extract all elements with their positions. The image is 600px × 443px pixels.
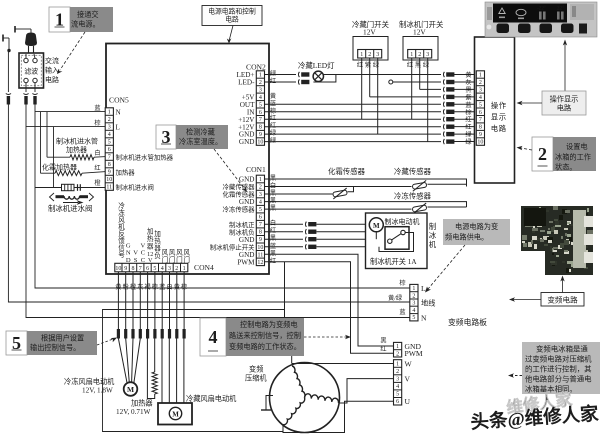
svg-text:变频电冰箱是通: 变频电冰箱是通 xyxy=(536,345,588,354)
svg-text:3: 3 xyxy=(168,266,171,272)
annotation box 操作显示电路 xyxy=(542,91,586,115)
svg-text:路送来控制信号，控制: 路送来控制信号，控制 xyxy=(229,331,301,340)
svg-text:M: M xyxy=(373,222,380,230)
svg-text:LED-: LED- xyxy=(238,79,255,87)
svg-text:9: 9 xyxy=(124,266,127,272)
svg-text:4: 4 xyxy=(259,200,262,206)
svg-text:机: 机 xyxy=(118,222,125,231)
svg-text:4: 4 xyxy=(108,132,111,138)
inverter GND/PWM connector xyxy=(394,342,402,357)
svg-text:12: 12 xyxy=(257,260,263,266)
svg-text:6: 6 xyxy=(146,266,149,272)
step label 2 设置电冰箱的工作状态 xyxy=(532,137,553,171)
svg-text:变频: 变频 xyxy=(249,365,263,374)
svg-text:6: 6 xyxy=(396,399,399,405)
svg-text:10: 10 xyxy=(257,140,263,146)
svg-text:9: 9 xyxy=(259,237,262,243)
svg-text:冷冻传感器: 冷冻传感器 xyxy=(394,192,432,201)
svg-text:棕: 棕 xyxy=(270,107,276,115)
svg-text:2: 2 xyxy=(396,351,399,357)
icemaker internal wires xyxy=(375,232,377,239)
CON4 output wires down xyxy=(117,272,119,329)
svg-text:4: 4 xyxy=(209,327,218,347)
svg-text:化霜传感器: 化霜传感器 xyxy=(328,167,366,176)
step label 5 根据用户设置输出控制信号 xyxy=(6,331,27,355)
switch drop wires xyxy=(361,58,363,119)
svg-text:机: 机 xyxy=(429,240,437,249)
svg-text:GND: GND xyxy=(239,176,255,184)
refrigerator LED lamp xyxy=(313,71,323,81)
connector CON4 xyxy=(115,263,188,272)
svg-text:红: 红 xyxy=(270,114,276,122)
wire: N branch to CON5 pin1 xyxy=(35,111,106,113)
svg-text:2: 2 xyxy=(396,369,399,375)
svg-text:8: 8 xyxy=(108,162,111,168)
svg-text:操: 操 xyxy=(491,101,499,110)
svg-text:器: 器 xyxy=(154,245,161,253)
svg-text:8: 8 xyxy=(259,230,262,236)
resistor: icemaker inlet pipe heater xyxy=(47,156,70,158)
display board connector xyxy=(476,71,484,146)
svg-text:制冰机进水管加热器: 制冰机进水管加热器 xyxy=(116,152,174,161)
label box 变频电路 xyxy=(541,293,584,307)
svg-text:蓝: 蓝 xyxy=(270,99,276,107)
compressor coils xyxy=(292,366,305,398)
svg-text:1: 1 xyxy=(412,286,415,292)
junction circle (grey wire stub) xyxy=(389,80,393,84)
svg-text:10: 10 xyxy=(257,245,263,251)
svg-text:2: 2 xyxy=(368,52,371,58)
svg-text:电路: 电路 xyxy=(225,15,239,24)
svg-text:12V: 12V xyxy=(363,28,376,37)
svg-text:冷藏风扇电动机: 冷藏风扇电动机 xyxy=(186,394,237,403)
svg-text:1: 1 xyxy=(259,73,262,79)
svg-text:蓝: 蓝 xyxy=(270,242,276,250)
svg-text:制冰电动机: 制冰电动机 xyxy=(385,217,420,226)
svg-text:黄: 黄 xyxy=(270,92,276,100)
bottom unit enclosure xyxy=(103,310,285,432)
icemaker motor xyxy=(369,218,383,232)
svg-text:绿: 绿 xyxy=(270,70,277,78)
svg-text:状态。: 状态。 xyxy=(555,163,577,172)
svg-text:GND: GND xyxy=(239,138,255,146)
wire: N run xyxy=(26,102,410,318)
svg-text:反: 反 xyxy=(118,229,125,238)
display panel photo xyxy=(485,2,597,37)
operation display circuit box xyxy=(475,37,515,183)
svg-text:白: 白 xyxy=(94,149,100,157)
svg-text:12V: 12V xyxy=(413,28,426,37)
svg-text:5: 5 xyxy=(479,102,482,108)
svg-text:流电源。: 流电源。 xyxy=(71,20,100,29)
svg-text:7: 7 xyxy=(108,155,111,161)
svg-text:9: 9 xyxy=(108,170,111,176)
fridge fan motor box xyxy=(158,403,192,425)
svg-text:M: M xyxy=(127,385,134,394)
svg-text:2: 2 xyxy=(259,185,262,191)
svg-text:1: 1 xyxy=(360,52,363,58)
svg-text:6: 6 xyxy=(259,110,262,116)
svg-text:电路: 电路 xyxy=(557,104,571,113)
svg-text:门: 门 xyxy=(169,255,176,264)
svg-text:4: 4 xyxy=(259,95,262,101)
wires CON2 LED+/- to lamp xyxy=(265,74,297,76)
svg-text:设置电: 设置电 xyxy=(566,142,588,151)
svg-text:热: 热 xyxy=(154,236,161,245)
svg-text:N: N xyxy=(116,109,122,117)
svg-text:5: 5 xyxy=(108,140,111,146)
mains filter box 滤波 xyxy=(19,53,44,88)
svg-text:2: 2 xyxy=(412,293,415,299)
svg-text:棕: 棕 xyxy=(399,279,405,287)
svg-text:1: 1 xyxy=(396,362,399,368)
svg-text:冷藏传感器: 冷藏传感器 xyxy=(394,167,432,176)
svg-text:压缩机: 压缩机 xyxy=(245,374,267,383)
svg-text:制冰机进水阀: 制冰机进水阀 xyxy=(48,204,92,213)
svg-text:绿: 绿 xyxy=(270,137,277,145)
svg-text:4: 4 xyxy=(396,384,399,390)
icemaker water valve coil xyxy=(62,184,81,191)
svg-text:红: 红 xyxy=(465,116,471,124)
svg-text:V: V xyxy=(148,257,153,264)
svg-text:N: N xyxy=(421,314,427,323)
svg-text:L: L xyxy=(116,124,120,132)
svg-text:9: 9 xyxy=(259,132,262,138)
svg-text:变频电路的工作状态。: 变频电路的工作状态。 xyxy=(229,342,301,351)
svg-text:根据用户设置: 根据用户设置 xyxy=(41,334,84,343)
svg-text:制冰机正: 制冰机正 xyxy=(229,220,255,229)
svg-text:W: W xyxy=(405,360,413,369)
svg-text:10: 10 xyxy=(477,140,483,146)
compressor case ground xyxy=(266,396,273,411)
svg-text:器: 器 xyxy=(147,242,154,250)
svg-text:10: 10 xyxy=(106,177,112,183)
svg-text:他电路部分与普通电: 他电路部分与普通电 xyxy=(525,375,592,384)
svg-text:制冰机进水阀: 制冰机进水阀 xyxy=(116,182,154,191)
svg-text:1: 1 xyxy=(479,73,482,79)
svg-text:风: 风 xyxy=(176,249,183,257)
output pin header (10 pins) xyxy=(117,329,120,339)
svg-text:4: 4 xyxy=(161,266,164,272)
svg-text:红: 红 xyxy=(465,123,471,131)
svg-text:橙: 橙 xyxy=(94,179,101,187)
svg-text:的工作进行控制，其: 的工作进行控制，其 xyxy=(525,365,592,374)
svg-text:馈: 馈 xyxy=(118,236,125,245)
svg-text:3: 3 xyxy=(396,377,399,383)
svg-text:2: 2 xyxy=(538,144,547,164)
wires CON1 GND/PWM to inverter xyxy=(265,254,394,346)
svg-text:路: 路 xyxy=(499,124,507,133)
svg-text:化霜加热器: 化霜加热器 xyxy=(42,163,77,172)
svg-text:蓝: 蓝 xyxy=(399,308,405,316)
svg-text:过变频电路对压缩机: 过变频电路对压缩机 xyxy=(525,355,592,364)
svg-text:加: 加 xyxy=(147,227,154,236)
svg-text:11: 11 xyxy=(258,252,264,258)
svg-text:8: 8 xyxy=(132,266,135,272)
svg-text:绿: 绿 xyxy=(270,129,277,137)
svg-text:2: 2 xyxy=(108,117,111,123)
svg-text:门: 门 xyxy=(176,255,183,264)
icemaker harness wires xyxy=(265,223,304,225)
svg-text:5: 5 xyxy=(259,207,262,213)
filter output + breakaway connectors xyxy=(7,51,9,93)
step label 4 控制电路为变频电路... xyxy=(200,318,226,356)
svg-text:N: N xyxy=(126,250,131,257)
svg-text:2: 2 xyxy=(479,80,482,86)
svg-text:滤波: 滤波 xyxy=(24,67,38,76)
svg-text:5: 5 xyxy=(259,102,262,108)
svg-text:电源电路和控制: 电源电路和控制 xyxy=(208,7,256,16)
svg-text:7: 7 xyxy=(259,117,262,123)
svg-text:输入: 输入 xyxy=(45,66,59,75)
svg-text:10: 10 xyxy=(115,266,121,272)
svg-text:3: 3 xyxy=(376,52,379,58)
svg-text:C: C xyxy=(141,250,146,257)
svg-text:7: 7 xyxy=(259,222,262,228)
wire: earth run down-left xyxy=(8,102,410,302)
svg-text:8: 8 xyxy=(479,125,482,131)
svg-text:7: 7 xyxy=(139,266,142,272)
svg-text:CON5: CON5 xyxy=(109,96,129,105)
svg-text:4: 4 xyxy=(479,95,482,101)
svg-text:3: 3 xyxy=(259,87,262,93)
svg-text:1: 1 xyxy=(108,110,111,116)
svg-text:GND: GND xyxy=(239,198,255,206)
leader arrow from label 1 to AC input xyxy=(60,32,85,70)
svg-text:交流: 交流 xyxy=(45,56,59,65)
svg-text:5: 5 xyxy=(153,266,156,272)
svg-text:作: 作 xyxy=(499,101,507,110)
svg-text:冻: 冻 xyxy=(118,208,125,217)
svg-text:PWM: PWM xyxy=(405,349,423,358)
svg-text:紫: 紫 xyxy=(465,93,471,101)
svg-text:冷藏传感器: 冷藏传感器 xyxy=(223,182,256,191)
svg-text:变频电路: 变频电路 xyxy=(547,295,578,305)
fridge fan motor wires xyxy=(161,339,163,408)
svg-text:6: 6 xyxy=(108,147,111,153)
svg-text:D: D xyxy=(126,257,131,264)
svg-text:信: 信 xyxy=(118,243,125,252)
svg-text:操作显示: 操作显示 xyxy=(550,95,579,104)
svg-text:白: 白 xyxy=(270,182,276,190)
svg-text:22°: 22° xyxy=(557,5,564,12)
svg-text:2: 2 xyxy=(175,266,178,272)
arrow from annotation up to display photo xyxy=(564,44,566,91)
svg-text:接通交: 接通交 xyxy=(77,10,99,19)
heater wires + resistor xyxy=(154,339,156,373)
svg-text:PWM: PWM xyxy=(237,258,255,266)
svg-text:5: 5 xyxy=(412,315,415,321)
svg-text:CON1: CON1 xyxy=(246,165,266,174)
droppers from N line to heaters xyxy=(40,112,42,174)
svg-text:-22°: -22° xyxy=(537,5,546,12)
svg-text:8: 8 xyxy=(259,125,262,131)
wire: valve feed branch xyxy=(35,187,106,189)
resistor: defrost heater xyxy=(41,172,56,174)
freezer fan motor M xyxy=(124,382,138,396)
svg-text:加: 加 xyxy=(154,229,161,238)
svg-text:制冰机开关 1A: 制冰机开关 1A xyxy=(370,257,417,266)
svg-text:号: 号 xyxy=(118,251,125,259)
svg-text:3: 3 xyxy=(108,125,111,131)
valve solenoid (dashed bracket + coil + arrow) xyxy=(50,193,94,205)
svg-text:黄/绿: 黄/绿 xyxy=(388,294,403,302)
svg-text:检测冷藏: 检测冷藏 xyxy=(186,128,215,137)
svg-text:G: G xyxy=(126,243,131,250)
svg-text:频电路供电。: 频电路供电。 xyxy=(445,233,488,242)
inverter PCB photo xyxy=(521,206,593,275)
svg-text:3: 3 xyxy=(479,87,482,93)
svg-text:白: 白 xyxy=(270,219,276,227)
svg-text:冷冻风扇电动机: 冷冻风扇电动机 xyxy=(64,377,115,386)
svg-text:红: 红 xyxy=(94,164,100,172)
svg-text:M: M xyxy=(172,411,179,419)
svg-text:V: V xyxy=(405,375,411,384)
wire: L branch to CON5 pin3 xyxy=(26,126,106,128)
svg-text:示: 示 xyxy=(499,113,506,122)
svg-text:冰箱的工作: 冰箱的工作 xyxy=(555,153,591,162)
svg-text:风: 风 xyxy=(169,249,176,257)
svg-text:制: 制 xyxy=(429,222,436,231)
mystery drop wire behind step4 xyxy=(284,262,286,318)
svg-text:红: 红 xyxy=(270,257,276,265)
icemaker unit box 制冰机 xyxy=(366,213,428,269)
svg-text:风: 风 xyxy=(162,249,169,257)
step label 1 接通交流电源 xyxy=(49,7,70,32)
svg-text:加热器: 加热器 xyxy=(116,167,136,176)
svg-text:红: 红 xyxy=(380,345,386,353)
svg-text:黑: 黑 xyxy=(270,250,276,257)
compressor circle xyxy=(270,363,340,433)
step label 3 检测冷藏冷冻室温度 xyxy=(156,125,176,149)
svg-text:电源电路为变: 电源电路为变 xyxy=(455,222,498,231)
svg-text:6: 6 xyxy=(259,215,262,221)
svg-text:冷冻传感器: 冷冻传感器 xyxy=(223,205,256,214)
svg-text:热: 热 xyxy=(147,234,154,243)
svg-text:6: 6 xyxy=(479,110,482,116)
svg-text:3: 3 xyxy=(426,52,429,58)
svg-text:绿: 绿 xyxy=(423,61,430,69)
svg-text:电路: 电路 xyxy=(45,75,59,84)
earth stub top-left xyxy=(3,35,11,53)
icemaker switch box xyxy=(385,227,409,250)
power/control board outline xyxy=(106,44,269,275)
inverter UVW connector xyxy=(394,360,402,405)
svg-text:棕: 棕 xyxy=(465,108,471,116)
svg-text:加热器: 加热器 xyxy=(131,399,153,408)
svg-text:风: 风 xyxy=(183,249,190,257)
svg-text:门: 门 xyxy=(183,255,190,264)
svg-text:V: V xyxy=(141,243,146,250)
svg-text:黑: 黑 xyxy=(465,87,471,94)
svg-text:L: L xyxy=(421,284,426,293)
svg-text:冰: 冰 xyxy=(429,231,437,240)
svg-text:1: 1 xyxy=(396,344,399,350)
svg-text:1: 1 xyxy=(410,52,413,58)
svg-text:红: 红 xyxy=(270,77,276,85)
plug-to-filter stubs xyxy=(25,54,27,58)
svg-text:3: 3 xyxy=(259,192,262,198)
svg-text:地线: 地线 xyxy=(421,299,435,308)
title box 电源电路和控制电路 xyxy=(202,6,262,44)
svg-text:红: 红 xyxy=(270,122,276,130)
svg-text:绿: 绿 xyxy=(465,138,472,146)
svg-text:7: 7 xyxy=(479,117,482,123)
sensor wires CON1 pins1-5 xyxy=(265,179,467,187)
svg-text:冷: 冷 xyxy=(118,201,125,210)
svg-text:冷冻室温度。: 冷冻室温度。 xyxy=(179,137,222,146)
svg-text:电: 电 xyxy=(491,124,499,133)
svg-text:绿: 绿 xyxy=(465,131,472,139)
svg-text:V: V xyxy=(133,250,138,257)
svg-text:负: 负 xyxy=(154,251,161,260)
compressor phase wires xyxy=(292,363,394,365)
svg-text:U: U xyxy=(405,397,411,406)
svg-text:蓝: 蓝 xyxy=(94,104,100,112)
info box 变频电冰箱说明 xyxy=(522,342,600,394)
svg-text:C: C xyxy=(141,257,146,264)
svg-text:冷藏LED灯: 冷藏LED灯 xyxy=(298,61,335,70)
annotation 电源电路为变频电路供电 xyxy=(443,219,510,245)
svg-text:红: 红 xyxy=(270,227,276,235)
svg-text:变频电路板: 变频电路板 xyxy=(448,317,487,327)
svg-text:控制电路为变频电: 控制电路为变频电 xyxy=(240,320,298,329)
svg-text:11: 11 xyxy=(106,185,112,191)
wire: L run xyxy=(35,102,410,288)
svg-text:GND: GND xyxy=(239,236,255,244)
svg-text:显: 显 xyxy=(491,113,499,122)
svg-text:加热器: 加热器 xyxy=(66,145,87,154)
svg-text:5: 5 xyxy=(396,392,399,398)
svg-text:CON4: CON4 xyxy=(194,263,214,272)
svg-text:4: 4 xyxy=(412,308,415,314)
svg-text:绿: 绿 xyxy=(373,61,380,69)
svg-text:输出控制信号。: 输出控制信号。 xyxy=(30,343,80,352)
svg-text:灰: 灰 xyxy=(465,78,471,86)
display harness wires xyxy=(336,74,441,76)
svg-text:黑: 黑 xyxy=(380,338,386,345)
svg-text:1: 1 xyxy=(259,177,262,183)
svg-text:9: 9 xyxy=(479,132,482,138)
AC plug xyxy=(15,26,37,54)
svg-text:蓝: 蓝 xyxy=(465,101,471,109)
svg-text:S: S xyxy=(134,257,138,264)
svg-text:风: 风 xyxy=(118,216,125,224)
svg-text:黄: 黄 xyxy=(465,71,471,79)
svg-text:12V, 0.71W: 12V, 0.71W xyxy=(116,408,151,416)
svg-text:2: 2 xyxy=(259,80,262,86)
svg-text:1: 1 xyxy=(183,266,186,272)
svg-text:2: 2 xyxy=(418,52,421,58)
freezer fan motor wires xyxy=(118,339,127,383)
svg-text:制冰机进水管: 制冰机进水管 xyxy=(56,137,98,146)
svg-text:棕: 棕 xyxy=(94,119,100,127)
svg-text:12V, 1.8W: 12V, 1.8W xyxy=(82,387,113,395)
svg-text:门: 门 xyxy=(162,255,169,264)
